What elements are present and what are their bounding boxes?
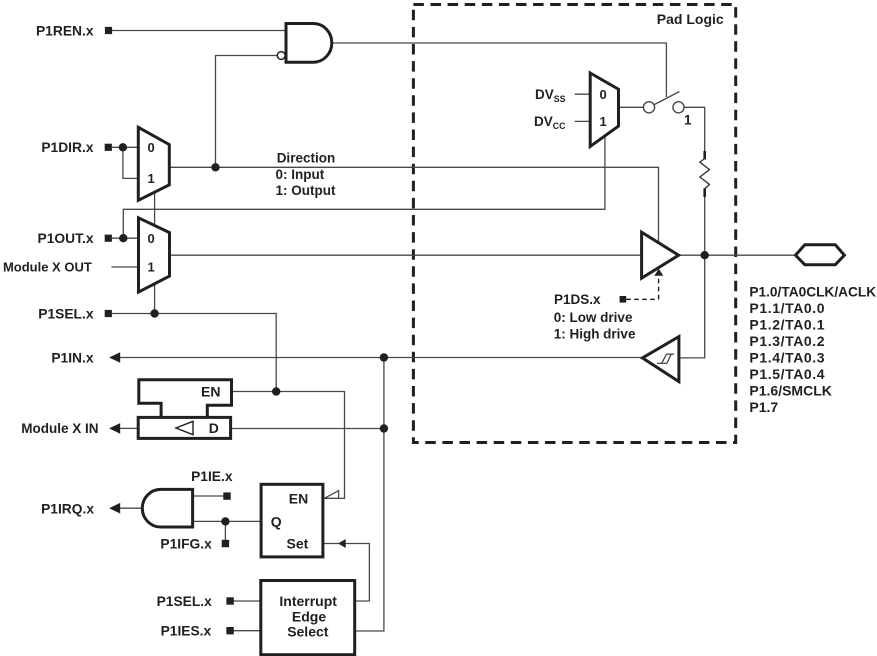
- svg-text:P1.2/TA0.1: P1.2/TA0.1: [749, 316, 825, 332]
- svg-text:D: D: [209, 420, 219, 436]
- svg-text:0: 0: [148, 231, 155, 246]
- svg-text:P1IRQ.x: P1IRQ.x: [41, 502, 94, 517]
- svg-text:P1REN.x: P1REN.x: [36, 23, 94, 38]
- svg-text:0: 0: [600, 87, 607, 102]
- svg-text:Select: Select: [287, 623, 329, 639]
- svg-text:Edge: Edge: [292, 609, 326, 625]
- svg-text:1: 1: [148, 260, 155, 275]
- svg-text:1: 1: [148, 171, 155, 186]
- svg-text:P1IN.x: P1IN.x: [51, 350, 94, 365]
- svg-text:1: 1: [684, 113, 692, 128]
- svg-text:Pad Logic: Pad Logic: [657, 11, 724, 27]
- svg-text:P1.3/TA0.2: P1.3/TA0.2: [749, 333, 825, 349]
- svg-text:Module X OUT: Module X OUT: [3, 260, 92, 275]
- svg-text:0: Input: 0: Input: [276, 167, 325, 182]
- svg-text:1: Output: 1: Output: [276, 183, 336, 198]
- svg-text:P1.5/TA0.4: P1.5/TA0.4: [749, 366, 825, 382]
- svg-text:Q: Q: [271, 513, 282, 529]
- svg-text:P1IFG.x: P1IFG.x: [160, 537, 212, 552]
- svg-text:Interrupt: Interrupt: [279, 593, 337, 609]
- svg-text:Direction: Direction: [277, 150, 336, 165]
- svg-text:0: Low drive: 0: Low drive: [554, 310, 633, 325]
- svg-text:0: 0: [148, 140, 155, 155]
- svg-text:P1IE.x: P1IE.x: [191, 469, 233, 484]
- svg-text:P1DIR.x: P1DIR.x: [41, 140, 93, 155]
- svg-text:P1.4/TA0.3: P1.4/TA0.3: [749, 349, 825, 365]
- svg-text:P1SEL.x: P1SEL.x: [38, 306, 94, 321]
- svg-text:Module X IN: Module X IN: [21, 421, 98, 436]
- svg-text:EN: EN: [201, 384, 220, 400]
- svg-text:P1OUT.x: P1OUT.x: [38, 231, 94, 246]
- svg-text:1: 1: [600, 114, 607, 129]
- svg-text:P1.0/TA0CLK/ACLK: P1.0/TA0CLK/ACLK: [749, 284, 876, 299]
- svg-text:P1IES.x: P1IES.x: [161, 624, 212, 639]
- svg-text:P1.6/SMCLK: P1.6/SMCLK: [749, 382, 831, 398]
- svg-text:EN: EN: [289, 490, 308, 506]
- svg-text:P1DS.x: P1DS.x: [554, 292, 601, 307]
- svg-text:Set: Set: [287, 536, 309, 552]
- svg-text:P1SEL.x: P1SEL.x: [157, 594, 213, 609]
- svg-text:P1.7: P1.7: [749, 399, 778, 415]
- svg-text:P1.1/TA0.0: P1.1/TA0.0: [749, 300, 825, 316]
- svg-text:1: High drive: 1: High drive: [554, 326, 636, 341]
